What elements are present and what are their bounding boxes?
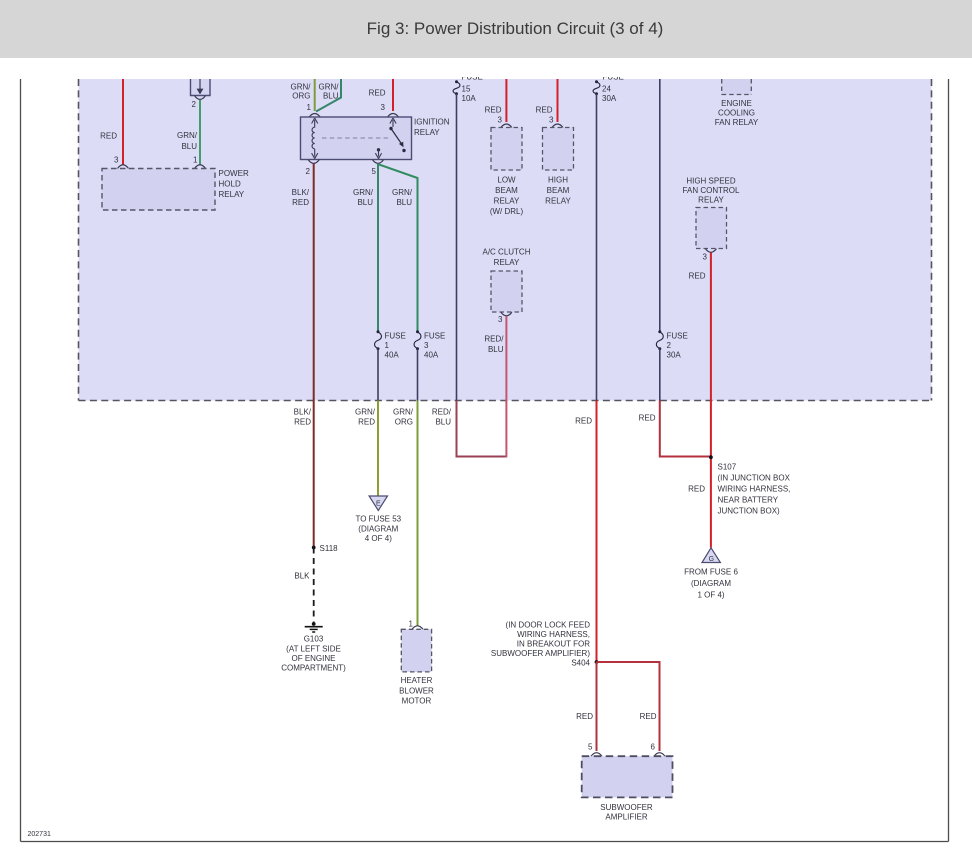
svg-text:2: 2 (667, 341, 672, 350)
svg-text:GRN/: GRN/ (392, 188, 413, 197)
svg-text:1: 1 (307, 103, 312, 112)
svg-text:FAN RELAY: FAN RELAY (715, 118, 759, 127)
svg-text:RED: RED (639, 414, 656, 423)
svg-text:JUNCTION BOX): JUNCTION BOX) (718, 507, 781, 516)
svg-text:S404: S404 (571, 659, 590, 668)
svg-text:MOTOR: MOTOR (402, 697, 432, 706)
pin arc subwoofer pin 5 (591, 753, 602, 757)
pin arc heater blower motor pin 1 (412, 626, 423, 630)
svg-text:SUBWOOFER: SUBWOOFER (600, 803, 653, 812)
svg-text:RED: RED (688, 485, 705, 494)
off-page arrow E to fuse 53 (355, 496, 401, 543)
wire RED below box from fuse 24 line going right to S107 (639, 401, 710, 457)
svg-text:IGNITION: IGNITION (414, 118, 450, 127)
svg-text:RELAY: RELAY (219, 190, 245, 199)
svg-text:TO FUSE 53: TO FUSE 53 (355, 515, 401, 524)
wire below fuse 3 to box edge (417, 349, 419, 401)
svg-text:GRN/: GRN/ (353, 188, 374, 197)
wire RED/BLU from a/c clutch relay pin 3 down (484, 316, 506, 458)
pin arc high speed fan control relay pin 3 (705, 249, 716, 253)
splice S118 (312, 544, 338, 553)
svg-text:RED: RED (576, 712, 593, 721)
svg-text:24: 24 (602, 85, 611, 94)
wire (navy) feed through box to fuse 2 (659, 79, 661, 331)
svg-text:BLOWER: BLOWER (399, 687, 434, 696)
subwoofer amplifier (dashed box) (582, 756, 673, 821)
svg-text:SUBWOOFER AMPLIFIER): SUBWOOFER AMPLIFIER) (491, 649, 590, 658)
wire GRN/BLU connector to power hold relay pin 1 (177, 100, 200, 165)
svg-text:BLK/: BLK/ (292, 188, 310, 197)
pin arc ignition relay pin 5 (373, 160, 384, 164)
svg-text:OF ENGINE: OF ENGINE (291, 654, 335, 663)
svg-text:FUSE: FUSE (385, 332, 406, 341)
svg-text:GRN/: GRN/ (355, 408, 376, 417)
door lock feed note and splice S404 (491, 621, 599, 668)
svg-text:S107: S107 (718, 463, 737, 472)
svg-text:4 OF 4): 4 OF 4) (365, 534, 392, 543)
svg-text:(AT LEFT SIDE: (AT LEFT SIDE (286, 645, 341, 654)
frame border right (948, 79, 950, 842)
svg-text:RELAY: RELAY (698, 196, 724, 205)
svg-text:BLU: BLU (181, 142, 197, 151)
svg-text:IN BREAKOUT FOR: IN BREAKOUT FOR (517, 640, 590, 649)
svg-text:202731: 202731 (28, 831, 51, 838)
svg-text:GRN/: GRN/ (319, 83, 340, 92)
svg-text:3: 3 (114, 156, 119, 165)
pin arc subwoofer pin 6 (654, 753, 665, 757)
wire BLK/RED from ignition relay pin 2 (292, 164, 314, 401)
svg-text:RED: RED (100, 132, 117, 141)
svg-text:15: 15 (462, 85, 471, 94)
svg-text:HIGH SPEED: HIGH SPEED (686, 177, 736, 186)
svg-text:2: 2 (306, 167, 311, 176)
battery junction box (dashed power distribution box) (79, 79, 932, 401)
wire GRN/ORG below box to heater blower motor (393, 401, 418, 627)
svg-text:RED: RED (689, 272, 706, 281)
svg-text:GRN/: GRN/ (177, 131, 198, 140)
svg-text:ENGINE: ENGINE (721, 99, 752, 108)
svg-text:E: E (376, 501, 381, 508)
svg-text:1: 1 (385, 341, 390, 350)
svg-text:COOLING: COOLING (718, 109, 755, 118)
fuse F? 24 30A feed (593, 80, 617, 103)
wire BLK/RED below box to splice S118 (294, 401, 314, 548)
ignition relay (301, 103, 450, 160)
svg-text:FUSE: FUSE (424, 332, 445, 341)
wire GRN/BLU diagonal into ignition relay pin 1 (316, 79, 341, 112)
svg-text:3: 3 (498, 116, 503, 125)
wire below fuse 2 to box edge (659, 349, 661, 401)
svg-text:RELAY: RELAY (545, 197, 571, 206)
svg-text:2: 2 (192, 100, 197, 109)
fuse F1 40A (375, 330, 406, 359)
svg-text:COMPARTMENT): COMPARTMENT) (281, 664, 346, 673)
svg-text:(IN DOOR LOCK FEED: (IN DOOR LOCK FEED (506, 621, 591, 630)
svg-text:FUSE: FUSE (667, 332, 688, 341)
svg-text:3: 3 (424, 341, 429, 350)
svg-text:RED: RED (358, 418, 375, 427)
svg-text:1: 1 (193, 156, 198, 165)
power hold relay (dashed box) (102, 169, 249, 211)
svg-text:RED: RED (292, 198, 309, 207)
svg-text:RED/: RED/ (432, 408, 452, 417)
pin arc a/c clutch relay pin 3 (501, 312, 512, 316)
svg-text:(DIAGRAM: (DIAGRAM (691, 579, 731, 588)
svg-text:WIRING HARNESS,: WIRING HARNESS, (718, 485, 791, 494)
svg-text:BLU: BLU (396, 198, 412, 207)
svg-text:FROM FUSE 6: FROM FUSE 6 (684, 568, 738, 577)
low beam relay (dashed box) (490, 128, 524, 217)
svg-text:S118: S118 (320, 544, 339, 553)
svg-text:RED: RED (369, 89, 386, 98)
high speed fan control relay (dashed box) (683, 177, 740, 262)
svg-text:RELAY: RELAY (414, 128, 440, 137)
svg-text:WIRING HARNESS,: WIRING HARNESS, (517, 630, 590, 639)
pin arc low beam relay pin 3 (501, 124, 512, 128)
svg-text:RED: RED (575, 417, 592, 426)
svg-text:(DIAGRAM: (DIAGRAM (358, 525, 398, 534)
svg-text:BLK: BLK (294, 572, 310, 581)
wire RED/BLU u-turn below box (432, 401, 506, 457)
fuse F2 30A (656, 330, 687, 359)
svg-text:40A: 40A (385, 351, 400, 360)
svg-text:(W/ DRL): (W/ DRL) (490, 207, 524, 216)
svg-text:6: 6 (651, 743, 656, 752)
a/c clutch relay (dashed box) (482, 248, 530, 325)
svg-text:RED: RED (536, 106, 553, 115)
svg-text:5: 5 (372, 167, 377, 176)
svg-text:40A: 40A (424, 351, 439, 360)
frame border left (20, 79, 22, 842)
svg-text:Fig 3: Power Distribution Circ: Fig 3: Power Distribution Circuit (3 of … (367, 19, 664, 38)
svg-text:G103: G103 (304, 635, 324, 644)
svg-text:1 OF 4): 1 OF 4) (697, 591, 724, 600)
high beam relay (dashed box) (543, 128, 574, 206)
wire (navy) from fuse 24 down to box edge (596, 94, 598, 401)
svg-text:HOLD: HOLD (219, 180, 241, 189)
svg-text:HIGH: HIGH (548, 176, 568, 185)
svg-text:3: 3 (498, 315, 503, 324)
pin arc high beam relay pin 3 (552, 124, 563, 128)
fuse F3 40A (414, 330, 445, 359)
off-page arrow G from fuse 6 (684, 548, 738, 600)
splice S107 (709, 455, 791, 515)
wire RED into ignition relay pin 3 (369, 79, 393, 111)
wire RED to power hold relay pin 3 (100, 79, 123, 165)
connector C (top, into GRN/BLU wire) (191, 79, 211, 99)
svg-text:RELAY: RELAY (494, 197, 520, 206)
svg-text:GRN/: GRN/ (291, 83, 312, 92)
svg-text:RELAY: RELAY (494, 258, 520, 267)
svg-text:5: 5 (588, 743, 593, 752)
svg-text:LOW: LOW (497, 176, 516, 185)
svg-text:BEAM: BEAM (547, 186, 570, 195)
svg-text:1: 1 (409, 620, 414, 629)
svg-text:ORG: ORG (292, 92, 310, 101)
wire RED into low beam relay pin 3 (485, 79, 507, 125)
svg-text:10A: 10A (462, 94, 477, 103)
engine cooling fan relay (dashed box, clipped at top) (715, 79, 759, 127)
heater blower motor (dashed box) (399, 629, 434, 705)
svg-text:(IN JUNCTION BOX: (IN JUNCTION BOX (718, 474, 791, 483)
svg-text:RED: RED (640, 712, 657, 721)
svg-text:30A: 30A (667, 351, 682, 360)
svg-text:30A: 30A (602, 94, 617, 103)
ground G103 (281, 622, 346, 673)
wire RED into high beam relay pin 3 (536, 79, 558, 125)
wire GRN/BLU diagonal from ignition relay pin 5 to fuse 3 (379, 165, 418, 331)
svg-text:HEATER: HEATER (401, 676, 433, 685)
svg-text:ORG: ORG (395, 418, 413, 427)
white clip band above diagram (0, 58, 972, 77)
svg-text:BLK/: BLK/ (294, 408, 312, 417)
wire RED below box to splice S404 (575, 401, 596, 663)
wire RED from fan control relay pin 3 down to splice S107 (689, 253, 711, 548)
svg-text:RED: RED (485, 106, 502, 115)
pin arc ignition relay pin 2 (308, 160, 319, 164)
svg-text:BLU: BLU (488, 345, 504, 354)
svg-text:3: 3 (549, 116, 554, 125)
svg-text:G: G (709, 556, 714, 563)
svg-text:3: 3 (703, 253, 708, 262)
svg-text:3: 3 (381, 103, 386, 112)
svg-text:BLU: BLU (435, 418, 451, 427)
wire GRN/RED below box to fuse 53 arrow (355, 401, 378, 497)
frame border bottom (21, 841, 949, 843)
svg-text:GRN/: GRN/ (393, 408, 414, 417)
wire GRN/BLU from ignition relay pin 5 to fuse 1 (353, 164, 378, 331)
svg-text:BEAM: BEAM (495, 186, 518, 195)
fuse F? 15A 10A feed (clipped FUSE label) (453, 80, 476, 103)
wire (navy) from fuse 15 down to box edge (456, 94, 458, 401)
svg-text:RED: RED (294, 418, 311, 427)
svg-text:A/C CLUTCH: A/C CLUTCH (482, 248, 530, 257)
svg-text:BLU: BLU (323, 92, 339, 101)
svg-text:NEAR BATTERY: NEAR BATTERY (718, 496, 779, 505)
svg-text:POWER: POWER (219, 169, 249, 178)
wire GRN/ORG into ignition relay pin 1 (291, 79, 315, 111)
svg-text:AMPLIFIER: AMPLIFIER (605, 813, 647, 822)
svg-text:BLU: BLU (357, 198, 373, 207)
svg-text:FAN CONTROL: FAN CONTROL (683, 186, 740, 195)
pin arc power hold relay pin 3 (118, 165, 129, 169)
wire below fuse 1 to box edge (377, 349, 379, 401)
wire RED from S404 right and down to subwoofer amplifier pin 6 (597, 662, 660, 752)
wire RED from S404 down to subwoofer amplifier pin 5 (576, 662, 596, 752)
wire BLK dashed to ground G103 (294, 548, 313, 622)
pin arc power hold relay pin 1 (195, 165, 206, 169)
svg-text:RED/: RED/ (484, 335, 504, 344)
title bar (0, 0, 972, 58)
